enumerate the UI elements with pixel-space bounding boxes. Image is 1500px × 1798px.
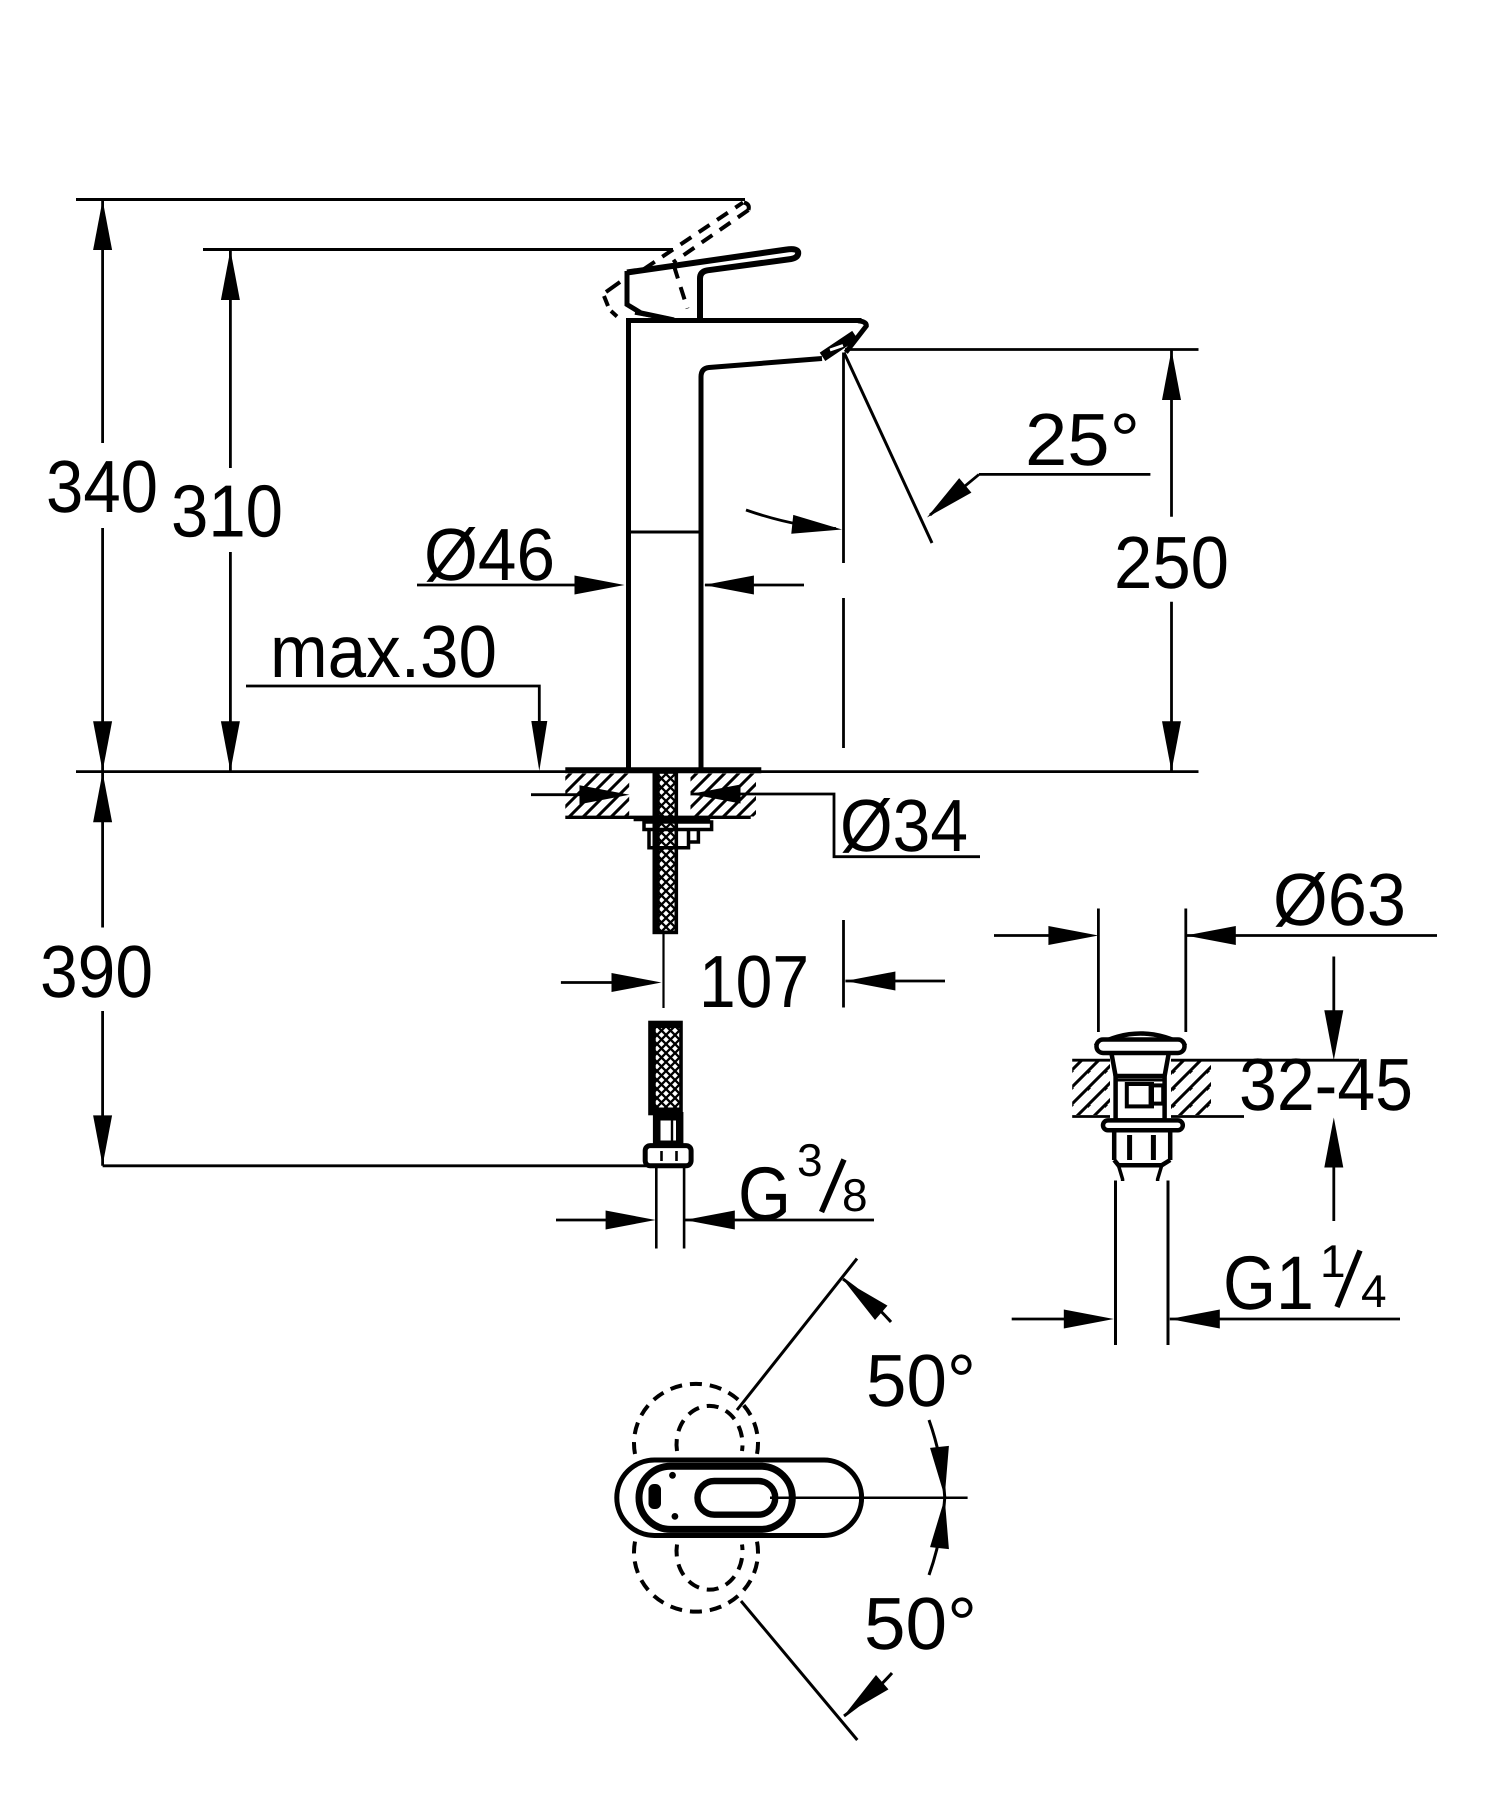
hose end reference line [103,1164,646,1167]
svg-text:8: 8 [842,1169,868,1221]
column inner right edge and spout underside [701,359,822,772]
dimension 310 reference line [203,248,673,251]
drain body [1116,1076,1165,1120]
drain under flange [1103,1120,1183,1130]
basin slab bottom line [1072,1115,1244,1118]
pivot dots [669,1472,676,1479]
slab hatch right of drain [1168,1062,1211,1116]
leader max.30 [246,686,539,760]
drain lock nut [1114,1130,1170,1165]
faucet body column [604,203,866,772]
svg-text:1: 1 [1320,1235,1346,1287]
hatched slab left [565,774,629,817]
svg-text:390: 390 [40,930,153,1013]
svg-text:Ø34: Ø34 [840,784,968,867]
dimension G1 1/4 [1012,1318,1065,1321]
svg-text:4: 4 [1361,1265,1387,1317]
hose crimp collar [653,1112,684,1144]
lever solid [627,249,798,320]
svg-text:32-45: 32-45 [1239,1043,1413,1126]
centerline [770,1496,968,1499]
basin slab top line [1072,1059,1359,1062]
lever inner oval [698,1481,776,1515]
countertop reference line [76,770,1199,773]
drain assembly [994,858,1437,1345]
svg-text:max.30: max.30 [270,610,497,693]
swung lever dashed upper [634,1384,758,1612]
dimension line 390 [101,772,104,1166]
top view of handle [617,1259,977,1740]
svg-text:310: 310 [171,470,283,553]
dimension 250 vertical [845,348,1199,351]
lever capsule [639,1466,792,1529]
dimension line 340 [101,200,104,772]
drain pushbutton cap [1110,1055,1171,1118]
svg-text:250: 250 [1114,521,1229,604]
column joint line [631,531,699,534]
svg-text:G: G [738,1152,791,1237]
washer [644,822,712,830]
column left edge [626,321,631,772]
dimension line 310 [229,250,232,772]
drain neck taper [1111,1053,1168,1076]
drain tailpipe [1118,1165,1161,1181]
aerator band [823,335,856,357]
svg-text:340: 340 [46,445,158,528]
svg-text:50°: 50° [864,1582,977,1665]
threaded shank rod [654,772,676,932]
svg-text:25°: 25° [1025,398,1140,481]
supply tube G3/8 [655,1166,658,1249]
spout tip outer face [846,321,867,353]
hose hex nut [645,1146,691,1166]
svg-text:107: 107 [699,940,809,1023]
supply centerline [662,934,664,1008]
body top edge [626,318,862,323]
dimension G3/8 [556,1219,607,1222]
svg-text:Ø46: Ø46 [424,513,555,596]
mounting nut [649,830,698,848]
slab hatch left of drain [1072,1062,1113,1116]
slab bottom line [565,816,750,819]
lever head outline [627,271,674,320]
lever button black [649,1484,662,1509]
swing arc lower [844,1673,892,1716]
braided hose [650,1023,681,1114]
handle outer capsule [617,1460,862,1536]
hole dimension arrows Ø34 [531,793,581,796]
lever raised dashed [604,203,749,317]
swing arc upper [843,1279,891,1322]
escutcheon base plate [565,767,761,773]
svg-text:G1: G1 [1223,1241,1314,1326]
dimension 32-45 [1332,957,1335,1013]
dimension 340 top reference line [76,198,745,201]
countertop cross-section [531,770,980,932]
hatched slab right [691,774,757,817]
dimension 107 [561,981,614,984]
svg-text:50°: 50° [866,1339,976,1422]
svg-text:3: 3 [797,1134,823,1186]
washer line [634,818,711,821]
dimension Ø46 [417,584,576,587]
Ø63 extension lines [1097,909,1100,1033]
dimension Ø63 [994,934,1050,937]
svg-text:Ø63: Ø63 [1273,858,1406,941]
25 degree annotation [844,353,932,544]
swing rays 50deg [737,1259,857,1410]
